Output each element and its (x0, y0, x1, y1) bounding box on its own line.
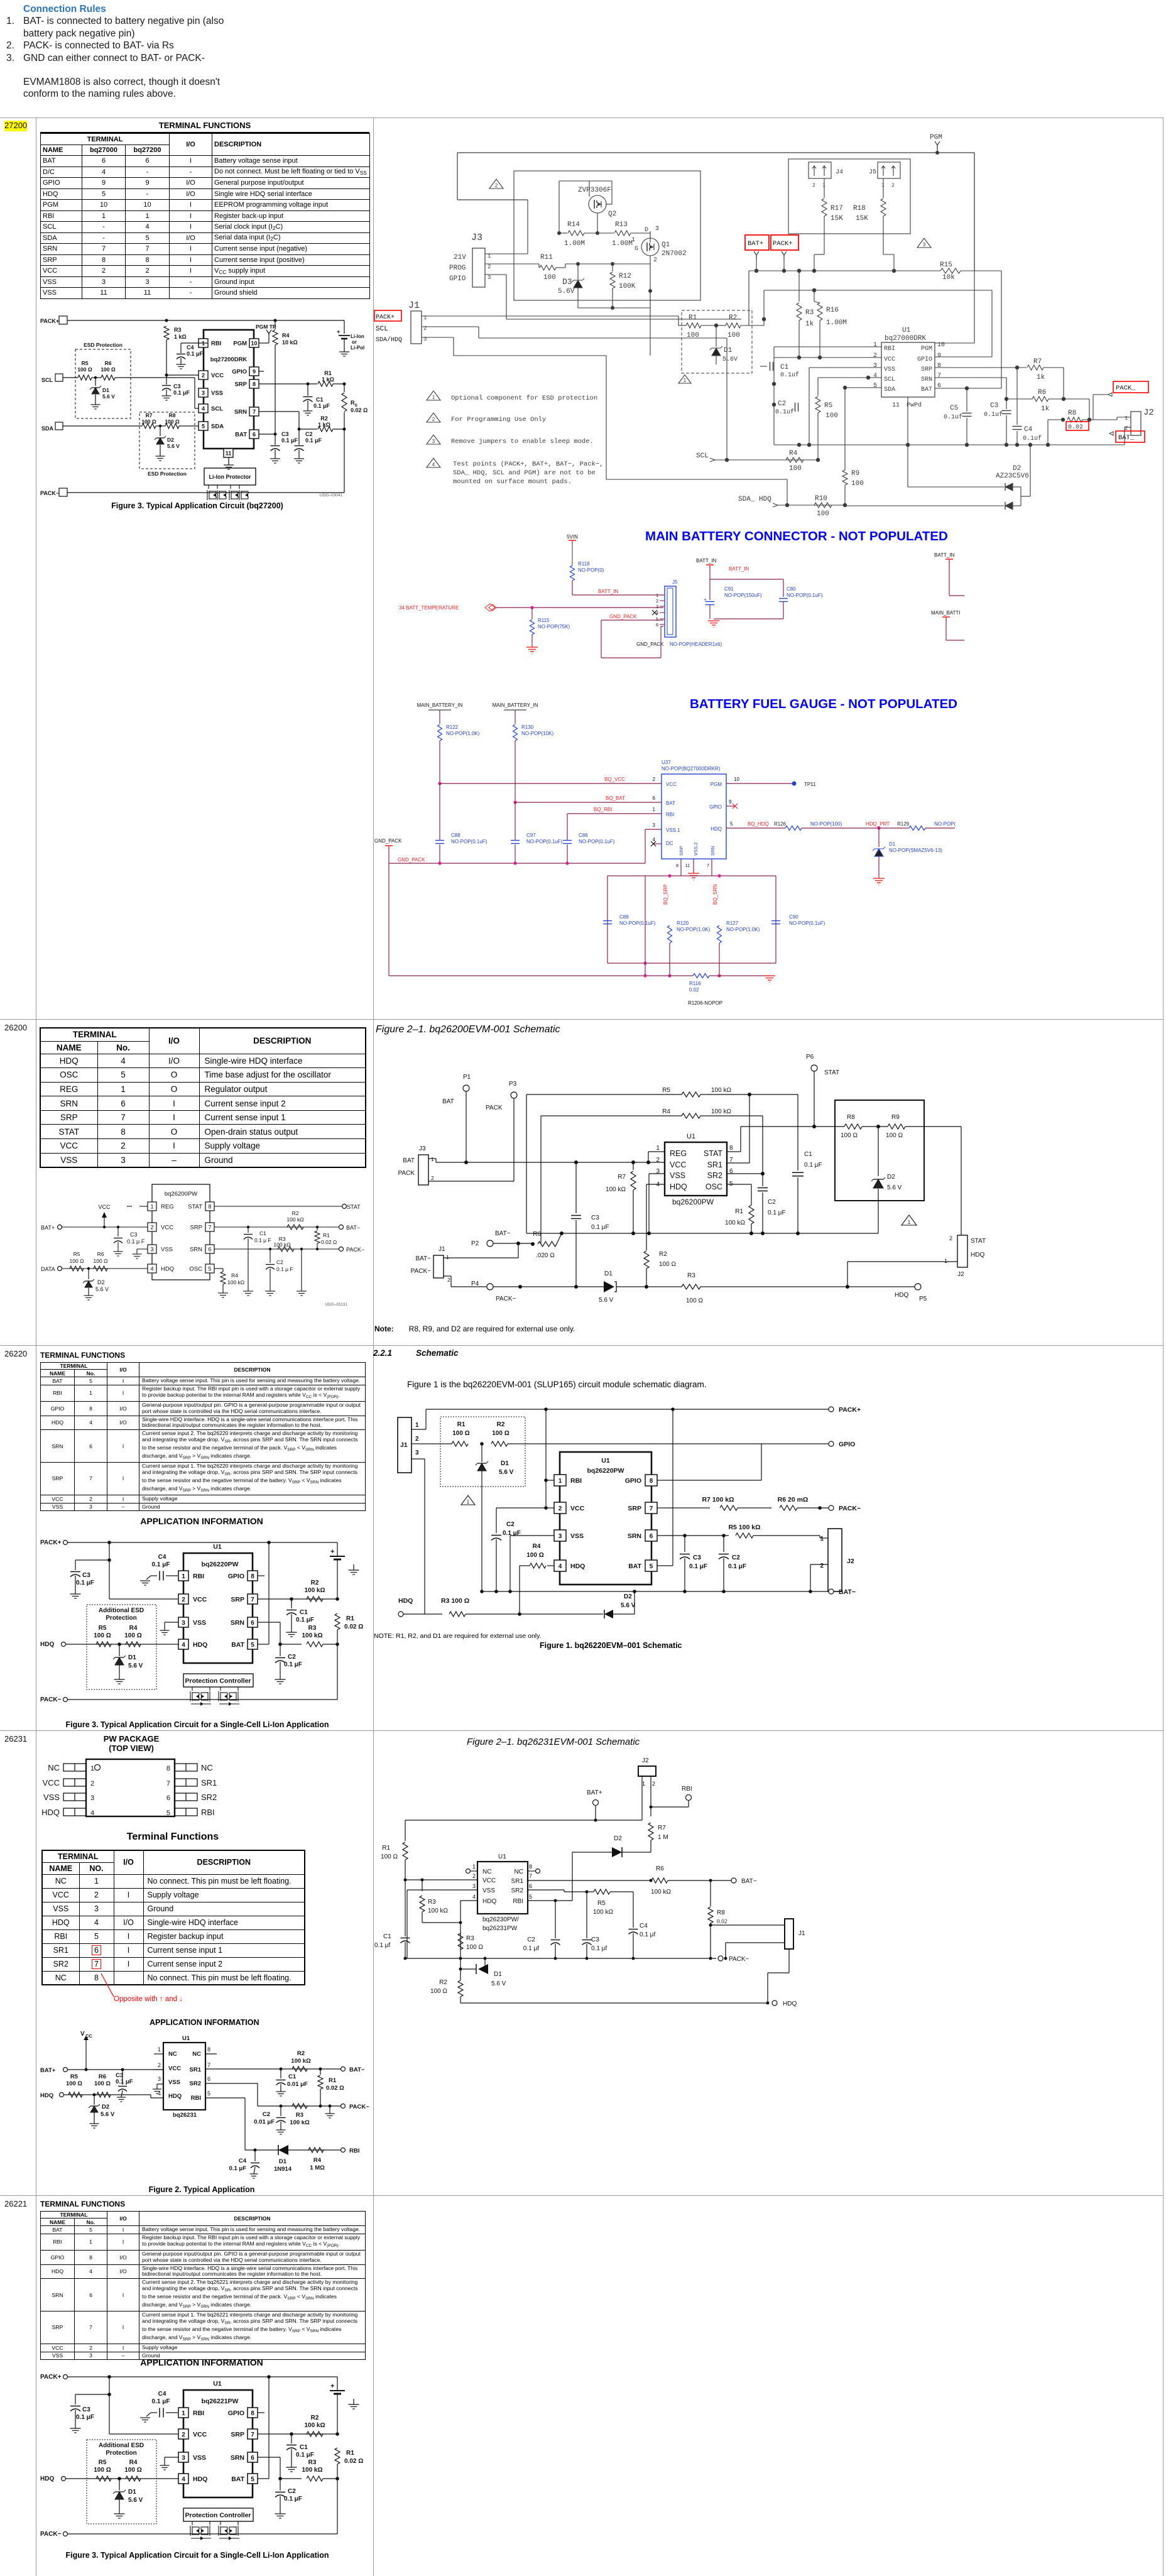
resistor R5 (70, 1266, 84, 1271)
svg-text:R9: R9 (891, 1114, 900, 1121)
wire SRN (258, 2457, 280, 2458)
package body (86, 1759, 175, 1816)
svg-text:3: 3 (182, 2455, 185, 2462)
resistor R3 100 (403, 1613, 442, 1615)
svg-text:GPIO: GPIO (625, 1477, 641, 1485)
svg-text:0.1 μF: 0.1 μF (152, 1561, 170, 1568)
svg-text:9: 9 (253, 369, 256, 375)
svg-text:R2: R2 (497, 1421, 505, 1428)
svg-text:C3: C3 (591, 1936, 599, 1943)
svg-text:VSS: VSS (211, 390, 223, 397)
svg-text:Additional ESD: Additional ESD (99, 1607, 144, 1614)
node P5 HDQ (915, 1284, 921, 1290)
pin 5 OSC (205, 1264, 214, 1273)
svg-text:U1: U1 (687, 1133, 695, 1140)
wire BQ_VCC (440, 783, 662, 784)
svg-text:6: 6 (650, 1533, 653, 1540)
capacitor C2 (280, 2479, 281, 2491)
wire HDQ pin4 (646, 1184, 665, 1185)
svg-text:6: 6 (208, 1247, 211, 1253)
svg-text:2: 2 (202, 373, 205, 379)
node PACK- (339, 1247, 344, 1252)
svg-text:R1: R1 (324, 370, 332, 376)
ground battery (339, 351, 349, 352)
svg-text:10 kΩ: 10 kΩ (282, 339, 298, 346)
svg-text:mounted on surface mount pads.: mounted on surface mount pads. (453, 478, 572, 486)
capacitor C3 (122, 2070, 123, 2085)
wire SR2 row (528, 1889, 564, 1891)
capacitor C2 (298, 429, 300, 445)
svg-text:100 Ω: 100 Ω (492, 1430, 509, 1437)
schematic: 27200 EVM (374, 119, 1163, 528)
FETs (192, 2521, 193, 2525)
svg-text:OSC: OSC (189, 1266, 202, 1273)
svg-text:VSS: VSS (168, 2079, 180, 2086)
svg-text:6: 6 (251, 1620, 254, 1627)
svg-text:8: 8 (650, 1478, 653, 1485)
svg-text:100 Ω: 100 Ω (466, 1944, 483, 1951)
svg-text:STAT: STAT (188, 1204, 202, 1211)
svg-text:C2: C2 (527, 1936, 535, 1943)
wire VSS.1 (645, 829, 662, 830)
wire GPIO row (764, 290, 992, 291)
svg-text:SCL: SCL (884, 376, 895, 383)
svg-text:SR2: SR2 (511, 1887, 524, 1894)
svg-text:BAT−: BAT− (839, 1588, 856, 1596)
svg-text:C1: C1 (300, 2444, 308, 2451)
capacitor C2 (280, 1644, 281, 1656)
svg-text:100 Ω: 100 Ω (94, 1258, 108, 1264)
svg-text:100 Ω: 100 Ω (430, 1988, 447, 1995)
pin 4 HDQ (148, 1264, 156, 1273)
capacitor C1 0.1uf (770, 362, 771, 371)
svg-text:100 Ω: 100 Ω (70, 1258, 84, 1264)
wire SRP (258, 2433, 337, 2435)
wire pin1 REG (648, 1151, 665, 1152)
svg-text:STAT: STAT (704, 1149, 722, 1158)
battery (337, 2377, 338, 2391)
triangle note 1a (427, 391, 440, 400)
pin 5 BAT (248, 1639, 258, 1649)
svg-text:1: 1 (873, 342, 877, 349)
svg-text:Additional ESD: Additional ESD (99, 2442, 144, 2449)
svg-text:0.1 μF: 0.1 μF (187, 351, 204, 357)
wire main bus (749, 270, 940, 271)
resistor R2 100 (644, 1251, 649, 1269)
svg-text:NO-POP(HEADER1x6): NO-POP(HEADER1x6) (670, 641, 722, 647)
wire R8 left leg (1048, 419, 1063, 420)
svg-text:D3: D3 (562, 277, 572, 287)
svg-text:BQ_HDQ: BQ_HDQ (748, 821, 769, 827)
pin 6 SRN (645, 1530, 657, 1541)
svg-text:100 kΩ: 100 kΩ (651, 1889, 671, 1896)
svg-text:1: 1 (944, 1258, 947, 1264)
svg-text:100 Ω: 100 Ω (124, 1632, 141, 1639)
svg-text:4: 4 (150, 1266, 153, 1272)
svg-text:2: 2 (656, 599, 658, 604)
svg-text:HDQ: HDQ (971, 1252, 984, 1258)
resistor R1 100 (686, 323, 701, 328)
svg-text:HDQ: HDQ (711, 826, 722, 832)
wire SCL (63, 377, 78, 378)
svg-text:NO-POP(150uF): NO-POP(150uF) (724, 592, 762, 598)
capacitor C80 NO-POP(0.1uF) (783, 579, 784, 597)
resistor R7 1M (648, 1823, 653, 1840)
capacitor C97 NO-POP(0.1uF) (515, 802, 516, 840)
svg-text:R5: R5 (597, 1900, 606, 1907)
table: 26221 TERMINAL FUNCTIONS (40, 2200, 367, 2360)
svg-text:P4: P4 (471, 1280, 479, 1287)
svg-text:RBI: RBI (191, 2095, 201, 2102)
svg-text:PACK_: PACK_ (1116, 385, 1136, 392)
wire SDA (63, 425, 142, 427)
resistor R2 100 (716, 325, 726, 326)
svg-text:6: 6 (251, 2455, 254, 2462)
svg-text:8: 8 (251, 2410, 254, 2417)
svg-text:1: 1 (432, 395, 435, 400)
svg-text:1: 1 (158, 2046, 161, 2053)
package pin 4 (63, 1808, 86, 1816)
svg-text:R1: R1 (735, 1208, 743, 1215)
svg-text:C3: C3 (693, 1554, 701, 1561)
svg-text:5.6 V: 5.6 V (102, 393, 115, 400)
svg-text:SDA: SDA (211, 423, 224, 430)
ESD box 2 (139, 412, 195, 469)
svg-text:GPIO: GPIO (449, 275, 466, 283)
svg-text:R3: R3 (174, 327, 182, 333)
svg-text:0.1 μf: 0.1 μf (374, 1942, 390, 1949)
svg-text:6: 6 (166, 1794, 170, 1802)
svg-text:D1: D1 (102, 387, 109, 393)
wire GND_PACK loop (601, 619, 663, 621)
zener D2 (604, 1610, 613, 1618)
svg-text:R5: R5 (99, 2459, 107, 2466)
capacitor C86 NO-POP(0.1uF) (563, 840, 572, 841)
svg-text:C2: C2 (288, 2488, 296, 2495)
svg-text:U1: U1 (182, 2035, 190, 2042)
wire SRP pin8 (680, 859, 682, 876)
svg-text:Protection: Protection (106, 2450, 136, 2457)
resistor R5 100 (96, 1642, 111, 1647)
svg-text:VCC: VCC (193, 2431, 207, 2438)
resistor R127 NO-POP(1.0K) (717, 925, 722, 943)
svg-text:NC: NC (515, 1869, 523, 1875)
svg-text:VCC: VCC (161, 1225, 173, 1231)
svg-text:PACK−: PACK− (349, 2104, 369, 2110)
wire VSS pin3 (510, 1535, 554, 1536)
svg-text:0.1 μF: 0.1 μF (281, 437, 298, 444)
node PACK+ (829, 1407, 834, 1412)
svg-text:SRP: SRP (678, 846, 684, 856)
svg-text:0.1 μF: 0.1 μF (296, 1617, 314, 1624)
table: 26200 TERMINAL (40, 1027, 365, 1168)
svg-text:ZVP3306F: ZVP3306F (578, 187, 611, 194)
svg-text:J2: J2 (1143, 408, 1154, 418)
svg-text:HDQ: HDQ (482, 1898, 496, 1905)
svg-text:4: 4 (873, 373, 877, 379)
svg-text:bq27200DRK: bq27200DRK (210, 356, 248, 363)
svg-text:4: 4 (182, 2476, 185, 2483)
diode D1 (604, 1281, 614, 1292)
svg-text:3: 3 (653, 822, 656, 828)
svg-text:C2: C2 (288, 1654, 296, 1661)
wire J1.2 SCL (422, 326, 479, 327)
resistor R5 100k (526, 1094, 682, 1095)
svg-text:7: 7 (729, 1157, 733, 1164)
svg-text:0.1 μF: 0.1 μF (284, 2496, 302, 2502)
svg-text:100 kΩ: 100 kΩ (606, 1186, 626, 1193)
wire bus left leg (411, 863, 412, 976)
svg-text:R7: R7 (658, 1825, 666, 1831)
battery Li-Ion (344, 320, 345, 334)
svg-text:0.02 Ω: 0.02 Ω (344, 1624, 363, 1630)
svg-text:VCC: VCC (98, 1204, 111, 1210)
svg-text:U1: U1 (498, 1853, 506, 1860)
svg-text:1: 1 (642, 1781, 645, 1787)
wire Q2 gate down (597, 213, 598, 233)
wire BQ_HDQ / resistor R126 (726, 827, 785, 829)
wire HDQ pin4 (460, 1900, 477, 1901)
op chip bq26200PW (152, 1184, 210, 1280)
svg-text:J3: J3 (471, 232, 482, 243)
svg-text:VSS: VSS (884, 366, 895, 373)
svg-text:9: 9 (729, 799, 732, 805)
svg-text:+: + (337, 329, 340, 335)
svg-text:For Programming Use Only: For Programming Use Only (451, 416, 546, 423)
wire BAT pin6 (935, 388, 1001, 389)
svg-text:SR1: SR1 (707, 1160, 722, 1169)
svg-text:BATT_IN: BATT_IN (934, 552, 955, 558)
zener D1 5.6V (716, 325, 717, 347)
svg-text:R3 100 Ω: R3 100 Ω (441, 1597, 469, 1605)
svg-text:bq26221PW: bq26221PW (202, 2398, 239, 2405)
svg-text:D1: D1 (889, 841, 896, 847)
wire STAT pin8 (727, 1151, 741, 1152)
svg-text:R1: R1 (346, 2450, 354, 2457)
capacitor C1 (405, 1880, 406, 1936)
svg-text:U1: U1 (213, 2380, 222, 2388)
wire PGM to TP11 (726, 783, 794, 784)
resistor R2 100k (292, 2066, 307, 2071)
svg-text:R1: R1 (689, 314, 697, 322)
wire SDA pin5 (845, 387, 881, 388)
node BAT- (731, 1878, 736, 1883)
svg-text:5: 5 (202, 423, 205, 430)
resistor R2 100 (491, 1441, 508, 1446)
svg-text:SRN: SRN (628, 1532, 641, 1540)
svg-text:1.00M: 1.00M (564, 240, 585, 248)
svg-text:0.1 μF: 0.1 μF (305, 437, 322, 444)
svg-text:P6: P6 (806, 1054, 814, 1061)
svg-text:R5: R5 (74, 1251, 80, 1257)
svg-text:bq26200PW: bq26200PW (165, 1191, 197, 1198)
svg-text:2N7002: 2N7002 (662, 250, 687, 258)
svg-text:GND_PACK: GND_PACK (609, 614, 637, 619)
svg-text:R4: R4 (789, 450, 798, 457)
resistor R118 NO-POP(0) (570, 565, 575, 581)
svg-text:R4: R4 (282, 332, 290, 339)
svg-text:1: 1 (90, 1765, 94, 1772)
svg-text:100 Ω: 100 Ω (381, 1853, 398, 1860)
wire J3.1 (485, 253, 528, 254)
svg-text:C1: C1 (300, 1609, 308, 1616)
svg-text:100: 100 (727, 332, 740, 339)
svg-text:5: 5 (251, 2476, 254, 2483)
svg-text:2: 2 (158, 2062, 161, 2068)
capacitor C2 (762, 1174, 763, 1186)
svg-text:J2: J2 (957, 1271, 964, 1278)
capacitor C2 (270, 1249, 271, 1263)
svg-text:R11: R11 (540, 254, 553, 261)
svg-text:3: 3 (158, 2076, 161, 2082)
pin 3 VSS (178, 2452, 188, 2462)
svg-text:2: 2 (949, 1235, 952, 1242)
resistor R4 100 (126, 1642, 141, 1647)
svg-text:GPIO: GPIO (228, 2410, 244, 2417)
svg-text:HDQ: HDQ (40, 2475, 54, 2482)
svg-text:V: V (80, 2031, 85, 2038)
package pin 2 (63, 1779, 86, 1786)
svg-text:11: 11 (892, 402, 900, 409)
svg-text:4: 4 (656, 611, 658, 616)
svg-text:5.6 V: 5.6 V (128, 1662, 143, 1669)
svg-text:P1: P1 (463, 1074, 471, 1081)
package pin 1 (63, 1764, 86, 1771)
triangle note 1 (902, 1215, 917, 1225)
pin1 circle (95, 1765, 101, 1771)
svg-text:U1: U1 (601, 1457, 610, 1465)
capacitor C1 (248, 1227, 249, 1233)
svg-text:UDG–01131: UDG–01131 (325, 1302, 347, 1307)
svg-text:.020 Ω: .020 Ω (536, 1252, 555, 1259)
svg-text:0.02: 0.02 (1068, 424, 1083, 431)
svg-text:bq26231PW: bq26231PW (482, 1925, 518, 1932)
svg-text:D: D (645, 227, 648, 234)
svg-text:TP11: TP11 (804, 782, 816, 787)
svg-text:HDQ: HDQ (398, 1597, 413, 1605)
svg-text:0.1 μ F: 0.1 μ F (276, 1266, 293, 1272)
connector J2 (828, 1529, 842, 1591)
svg-text:100 kΩ: 100 kΩ (593, 1909, 613, 1916)
svg-text:R8: R8 (847, 1114, 855, 1121)
FET pair (208, 485, 209, 489)
svg-text:R3: R3 (308, 2459, 317, 2466)
resistor R14 1.00M (557, 231, 561, 235)
svg-text:RBI: RBI (513, 1898, 523, 1905)
svg-text:1.00M: 1.00M (826, 319, 847, 327)
node BAT- (829, 1589, 834, 1594)
svg-text:PACK−: PACK− (496, 1296, 516, 1302)
pin 1 RBI (554, 1475, 566, 1486)
svg-text:R17: R17 (831, 205, 843, 212)
svg-text:R122: R122 (446, 724, 459, 730)
resistor R18 15K (883, 178, 884, 198)
svg-text:100: 100 (687, 332, 699, 339)
ground VSS.2 (693, 859, 694, 873)
svg-text:5.6V: 5.6V (558, 288, 575, 295)
wire J3.2 to P3 (428, 1181, 514, 1182)
resistor R4 100 (547, 1565, 554, 1566)
svg-text:D2: D2 (887, 1174, 895, 1181)
svg-text:0.1 μ F: 0.1 μ F (127, 1238, 145, 1245)
svg-text:NC: NC (482, 1869, 491, 1875)
svg-text:SCL: SCL (696, 452, 709, 460)
svg-text:GPIO: GPIO (917, 356, 932, 363)
wire BAT- bus (482, 1591, 829, 1592)
node STAT (214, 1206, 342, 1207)
svg-text:1N914: 1N914 (274, 2166, 292, 2173)
svg-text:0.1 μF: 0.1 μF (296, 2452, 314, 2459)
svg-text:J5: J5 (869, 169, 876, 176)
capacitor C4 (166, 2412, 178, 2413)
pin 7 SRN (249, 407, 259, 416)
svg-text:C3: C3 (990, 402, 998, 410)
svg-text:R120: R120 (677, 920, 689, 926)
pin 2 VCC (554, 1502, 566, 1514)
pin 4 HDQ (178, 2474, 188, 2484)
svg-text:2: 2 (150, 1225, 153, 1231)
svg-text:11: 11 (685, 864, 690, 868)
svg-text:2: 2 (182, 1596, 185, 1603)
svg-text:PACK+: PACK+ (376, 314, 395, 321)
svg-text:100 kΩ: 100 kΩ (286, 1216, 303, 1223)
resistor R12 100K (612, 264, 613, 271)
svg-text:5.6 V: 5.6 V (621, 1602, 636, 1609)
svg-text:NO-POP(: NO-POP( (934, 821, 956, 827)
svg-text:PACK−: PACK− (411, 1268, 431, 1275)
svg-text:Test points (PACK+, BAT+, BAT−: Test points (PACK+, BAT+, BAT−, Pack−, (453, 461, 603, 468)
GPIO stub (258, 1575, 264, 1576)
svg-text:BAT: BAT (442, 1098, 454, 1105)
svg-text:BAT: BAT (628, 1563, 641, 1570)
wire pin2 VCC (154, 2069, 163, 2070)
svg-text:DATA: DATA (41, 1266, 55, 1272)
pin 1 RBI (178, 2408, 188, 2418)
svg-text:RBI: RBI (349, 2148, 359, 2154)
wire SRN (214, 1248, 339, 1250)
svg-text:R2: R2 (292, 1210, 299, 1216)
svg-text:1 kΩ: 1 kΩ (174, 334, 187, 340)
svg-text:34 BATT_TEMPERATURE: 34 BATT_TEMPERATURE (399, 605, 459, 611)
svg-text:3: 3 (90, 1794, 94, 1802)
svg-text:0.1 μF: 0.1 μF (76, 1580, 94, 1586)
battery (337, 1542, 338, 1556)
wire VSS to ground (165, 2457, 178, 2458)
svg-text:0.1 μF: 0.1 μF (229, 2165, 247, 2172)
pin 7 SRP (205, 1223, 214, 1231)
svg-text:PACK−: PACK− (40, 1696, 62, 1703)
svg-text:GND_PACK: GND_PACK (374, 838, 402, 844)
svg-text:R3: R3 (296, 2112, 303, 2119)
svg-text:P5: P5 (919, 1296, 927, 1302)
svg-text:R3: R3 (466, 1935, 474, 1942)
svg-text:PACK+: PACK+ (839, 1406, 861, 1414)
svg-text:8: 8 (253, 381, 256, 388)
wire SRN pin6 / resistor R5 (657, 1535, 729, 1536)
svg-text:C1: C1 (780, 364, 789, 371)
svg-text:NO-POP(10K): NO-POP(10K) (521, 731, 553, 736)
resistor R9 (888, 1124, 905, 1129)
svg-text:R10: R10 (815, 495, 827, 503)
svg-text:0.1 μF: 0.1 μF (152, 2398, 170, 2405)
wire SRP (259, 383, 317, 385)
svg-text:SR2: SR2 (190, 2080, 201, 2087)
svg-text:5.6 V: 5.6 V (499, 1469, 514, 1476)
svg-text:PGM: PGM (711, 782, 722, 787)
svg-text:U1: U1 (213, 1543, 222, 1551)
wire R6 to bus (557, 1233, 562, 1244)
svg-text:1: 1 (656, 594, 658, 598)
